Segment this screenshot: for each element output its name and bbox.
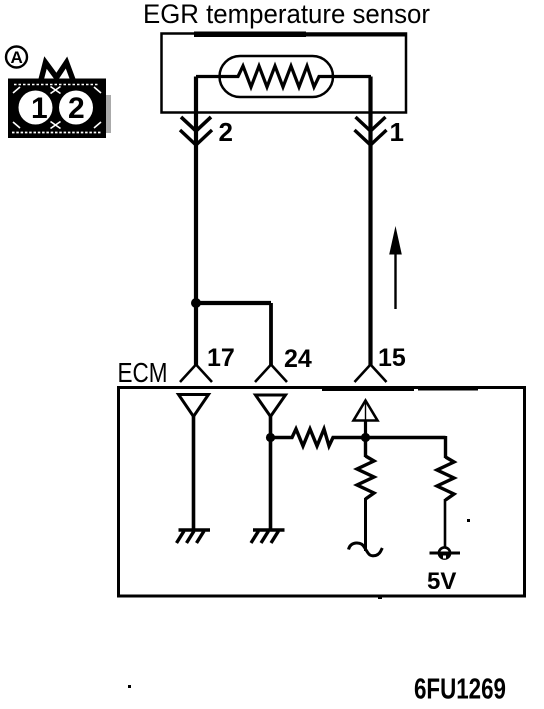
svg-text:24: 24 — [284, 345, 312, 373]
svg-text:2: 2 — [68, 92, 85, 125]
svg-text:1: 1 — [390, 117, 404, 147]
svg-text:17: 17 — [207, 344, 235, 372]
svg-text:6FU1269: 6FU1269 — [414, 674, 506, 705]
svg-text:1: 1 — [31, 92, 48, 125]
svg-text:5V: 5V — [427, 568, 456, 595]
svg-text:ECM: ECM — [118, 357, 168, 388]
svg-text:EGR temperature sensor: EGR temperature sensor — [143, 0, 430, 29]
svg-text:15: 15 — [378, 344, 406, 372]
svg-text:A: A — [11, 48, 23, 67]
svg-text:2: 2 — [219, 117, 233, 147]
